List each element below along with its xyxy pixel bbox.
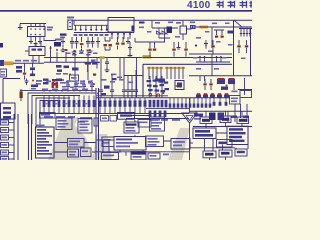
- small box bottom x148: [148, 153, 160, 159]
- center bus double: [96, 95, 168, 97]
- box U12: [78, 119, 92, 134]
- resistor RM5: [119, 98, 121, 101]
- wire top of U1: [20, 24, 46, 28]
- diode D2: [162, 28, 167, 38]
- resistor RS3: [157, 100, 160, 108]
- nested corner wires: [28, 93, 96, 127]
- comp small x228: [228, 31, 234, 34]
- wire E down: [135, 38, 170, 42]
- ground at U1 left: [18, 28, 23, 30]
- cap C60: [25, 79, 29, 86]
- cap C50 brown base: [212, 40, 214, 45]
- cap pair C31 brown: [214, 30, 224, 35]
- right lower bus: [189, 110, 252, 112]
- resistor RS2: [153, 100, 156, 108]
- resistor RR6: [189, 98, 191, 104]
- amp triangle: [182, 113, 197, 123]
- U10 label above: [37, 125, 45, 127]
- resistor RN7: [73, 96, 75, 101]
- tuner pin comb A: [148, 69, 150, 79]
- ground G2: [34, 44, 38, 46]
- cap drop C100: [75, 25, 77, 29]
- cap pair C51 C52 brown: [239, 40, 247, 45]
- bottom box BB3: [235, 149, 247, 156]
- comp BR1: [194, 114, 203, 117]
- left edge mark: [0, 43, 3, 48]
- cap C47: [177, 42, 181, 49]
- U10 pin label rows: [37, 129, 46, 131]
- svg-text:4100: 4100: [187, 0, 211, 11]
- wire right bus: [196, 26, 253, 28]
- bus drop wire: [74, 20, 108, 25]
- U1 top pins: [31, 24, 44, 27]
- mid bus wire: [44, 57, 143, 59]
- resistor RRb2: [219, 98, 221, 102]
- right low bus: [189, 75, 252, 77]
- wire center box down: [125, 119, 127, 124]
- comp LN1: [31, 85, 38, 88]
- scattered labels top band: [46, 81, 51, 83]
- red dot LM4: [62, 79, 64, 81]
- connector pin P4: [1, 143, 9, 148]
- vert bus x18: [17, 114, 19, 160]
- resistor RR5: [185, 98, 187, 104]
- cap drop C103: [90, 25, 92, 29]
- resistor RM7: [129, 98, 131, 101]
- fuse F2 orange-tan: [5, 62, 14, 65]
- box above U10: [40, 113, 56, 119]
- left comb inner labels: [45, 103, 48, 104]
- box DB3: [237, 117, 249, 124]
- J1 label: [67, 17, 74, 19]
- labels row LJ: [15, 60, 21, 62]
- dense cluster right verticals: [150, 76, 162, 98]
- ground G1: [29, 42, 33, 44]
- tuner pin comb B: [166, 69, 168, 79]
- cap drop C101: [80, 25, 82, 29]
- fuse F1 orange: [200, 26, 209, 29]
- electrolytic CE1 brown: [20, 92, 23, 99]
- cap C28 brown tip: [117, 37, 119, 42]
- right tall wires: [234, 20, 251, 76]
- vert x50: [50, 46, 52, 62]
- U4 wire up: [25, 42, 41, 63]
- resistor RN5: [63, 96, 65, 101]
- cap C42: [105, 58, 109, 69]
- cap pair C22 C23: [70, 37, 79, 49]
- resistor RN1: [43, 96, 45, 101]
- resistor RRb1: [213, 98, 215, 102]
- resistor RN10: [88, 96, 90, 101]
- U3 pin 1: [240, 29, 242, 37]
- right edge wires: [238, 78, 252, 95]
- cap drop C106: [106, 25, 108, 29]
- cluster LM parts: [56, 65, 62, 68]
- wire x120 vert: [119, 58, 121, 81]
- resistor RN2: [48, 96, 50, 101]
- left edge mark 2: [0, 60, 4, 66]
- horizontal y75.5 to tuner: [124, 75, 143, 77]
- mid bus extend: [143, 57, 232, 59]
- box U4 outline: [29, 47, 45, 56]
- Q1 pins: [183, 20, 192, 40]
- left edge box 3: [0, 69, 7, 77]
- small marks right: [231, 116, 237, 118]
- junction dot: [195, 44, 197, 46]
- center bus: [96, 97, 230, 99]
- small dark comp x104: [104, 86, 110, 89]
- connector pin P5: [1, 150, 9, 155]
- U2 pin block right: [132, 26, 135, 32]
- box WB2: [217, 140, 233, 148]
- connector J1: [68, 20, 72, 30]
- connector pin P6: [1, 157, 9, 162]
- center box with text: [118, 113, 135, 120]
- bottom bus: [96, 152, 189, 156]
- resistor RM9: [139, 98, 141, 101]
- vert bus x14: [13, 114, 15, 160]
- resistor RT2: [154, 111, 157, 118]
- U3 pin 3: [246, 29, 248, 37]
- box MB2 dark header: [131, 152, 146, 161]
- blue blob near CQ2: [91, 60, 96, 63]
- sheet border rule: [0, 10, 252, 12]
- dark comp right of U4: [54, 42, 61, 47]
- resistor RR3: [177, 98, 179, 104]
- left band lower labels: [44, 116, 53, 118]
- cap C41: [95, 58, 99, 69]
- resistor RM3: [109, 98, 111, 101]
- resistor RR10: [205, 98, 207, 104]
- bus junction dots: [43, 90, 45, 92]
- big IC U10 box: [36, 127, 55, 158]
- resistor RN9: [83, 96, 85, 101]
- resistor RT1: [149, 111, 152, 118]
- comp R10: [16, 66, 22, 69]
- bottom wires: [96, 116, 171, 153]
- comp RB1 red top: [217, 79, 225, 84]
- resistor RT4: [164, 111, 167, 118]
- labels strip x63-96: [64, 82, 69, 84]
- dense cluster blue rects: [147, 80, 152, 82]
- wire drop x212: [211, 27, 213, 48]
- IC U2 outline: [108, 18, 134, 33]
- center lower bus: [96, 113, 189, 115]
- box MA4: [146, 136, 164, 147]
- long verticals to bus: [101, 58, 136, 91]
- ground G3: [38, 42, 42, 44]
- box U5 small: [70, 75, 79, 81]
- vert drops to bus2: [57, 52, 88, 62]
- resistor RR9: [201, 98, 203, 104]
- red topped comps on bus: [196, 95, 201, 98]
- title hanzi 3: [240, 1, 247, 8]
- wire x75 vert: [74, 62, 76, 80]
- white box WB1: [171, 139, 190, 150]
- cluster Q bus: [196, 61, 230, 63]
- wire U1 to right: [44, 38, 56, 41]
- dense cluster red marks: [149, 94, 152, 97]
- resistor RT3: [159, 111, 162, 118]
- box DB2: [220, 116, 231, 123]
- electrolytic CQ2 brown: [85, 63, 92, 72]
- speckle labels right mid: [193, 57, 198, 59]
- cap C32: [204, 40, 208, 49]
- resistor RS5: [165, 100, 168, 108]
- cap pair C54: [217, 56, 222, 62]
- component CN2: [190, 25, 196, 29]
- watermark band mid: [92, 134, 112, 160]
- comp column x32: [32, 63, 34, 67]
- watermark band left: [48, 117, 78, 160]
- wire bus E: [152, 20, 178, 28]
- resistor RR11: [209, 98, 211, 104]
- right mid bus y54: [189, 53, 232, 55]
- wire LJ bus: [13, 62, 44, 64]
- label of C106: [105, 34, 109, 36]
- cap C30: [126, 37, 130, 43]
- left box with pins: [1, 103, 16, 119]
- box small white x138: [138, 120, 151, 128]
- resistor RN8: [78, 96, 80, 101]
- bottom box BB1: [203, 151, 216, 158]
- label of C103: [89, 34, 93, 36]
- resistor RM1: [99, 98, 101, 101]
- cap C40 red: [24, 63, 26, 72]
- resistor RR7: [193, 98, 195, 104]
- resistor RM10: [144, 98, 146, 101]
- IC U3 pin comb top-right: [239, 28, 252, 30]
- connector pin P1: [1, 120, 9, 125]
- cap drop C102: [85, 25, 87, 29]
- wire x137 vert: [136, 58, 138, 98]
- red electrolytics pair: [52, 82, 55, 88]
- olive label tag: [143, 55, 152, 58]
- comp MC5 dark: [175, 81, 184, 90]
- labels above verticals: [102, 79, 107, 81]
- GND label cluster: [60, 34, 67, 36]
- labels under cap row: [66, 53, 71, 55]
- resistor RM4: [114, 98, 116, 101]
- jumper W1: [139, 22, 145, 24]
- U2 bottom pins: [111, 32, 113, 39]
- diode D1: [157, 28, 162, 38]
- resistor RR8: [197, 98, 199, 104]
- cap C21 with ground: [61, 37, 65, 48]
- cap C45 brown: [154, 42, 156, 48]
- comp pair below bus: [200, 76, 205, 81]
- cap C46 brown: [173, 42, 175, 48]
- U4 inner marks: [32, 49, 37, 51]
- label of C101: [79, 34, 83, 36]
- box right of U10 a: [68, 139, 85, 148]
- resistor RS1: [149, 100, 152, 108]
- labels LL: [36, 80, 42, 82]
- comp MR2: [233, 82, 235, 90]
- labels near x115 y74: [111, 74, 117, 76]
- drop bottom bus: [74, 32, 134, 34]
- box MA1: [124, 122, 139, 133]
- connector pin P3: [1, 135, 9, 140]
- resistor RM8: [134, 98, 136, 101]
- title hanzi 2: [228, 1, 235, 8]
- cap C29 brown tip: [122, 37, 124, 42]
- resistor RRb3: [225, 98, 227, 102]
- IC box U21: [227, 126, 248, 144]
- title hanzi 1: [217, 1, 224, 8]
- resistor RN11: [93, 96, 95, 101]
- ground G4: [72, 50, 77, 54]
- bus mid right: [146, 108, 189, 110]
- comp RB2 red top: [228, 79, 235, 84]
- resistor RR1: [169, 98, 171, 104]
- resistor RS4: [161, 100, 164, 108]
- comp cluster LN3 red: [52, 79, 58, 81]
- left band bus: [20, 90, 96, 92]
- box right white: [230, 96, 241, 105]
- resistor RN6: [68, 96, 70, 101]
- wire diag to IC pins: [234, 20, 243, 27]
- bottom box BB2: [219, 150, 232, 157]
- box U11: [56, 118, 72, 130]
- top bus wire: [72, 19, 252, 21]
- label near U1 right: [55, 39, 62, 41]
- cap C48 brown: [185, 42, 187, 48]
- label of C100: [74, 34, 78, 36]
- label of C105: [100, 34, 104, 36]
- bus y118 center: [126, 118, 189, 120]
- olive label tag 2: [100, 56, 105, 59]
- tuner label: [155, 79, 165, 82]
- resistor RM2: [104, 98, 106, 101]
- red tips on cap row: [56, 49, 58, 51]
- cap drop C105: [101, 25, 103, 29]
- crystal X1 with brown pads: [105, 37, 110, 41]
- U3 pin 4: [249, 29, 251, 37]
- resistor RR2: [173, 98, 175, 104]
- comp LM2: [72, 68, 79, 71]
- cap C44 brown: [149, 42, 151, 48]
- cap pair C53: [200, 56, 205, 62]
- audio box U20: [193, 128, 216, 139]
- wires around U10: [54, 122, 96, 152]
- U3 pin 2: [243, 29, 245, 37]
- label bottom x163: [163, 154, 169, 156]
- cap C24 red tip: [81, 37, 83, 42]
- IC U1 outline: [28, 27, 46, 37]
- left band lower bus: [40, 113, 96, 115]
- wire big-box corner: [3, 79, 20, 104]
- boxed labels under bus: [101, 116, 109, 122]
- U1 bottom pins: [31, 37, 40, 42]
- cap pair C25 C26: [86, 37, 95, 48]
- connector pin P2: [1, 128, 9, 133]
- vert pair x96: [96, 88, 99, 160]
- box MB1: [102, 153, 119, 160]
- labels under comb: [150, 119, 158, 121]
- box MA2: [150, 117, 165, 131]
- watermark band right: [168, 128, 190, 160]
- box right of U10 c: [81, 148, 92, 157]
- cap ends row x66-94: [66, 80, 70, 91]
- relay K1 body: [167, 27, 173, 34]
- tuner box outline: [143, 64, 232, 97]
- wire x212b vert: [211, 54, 213, 76]
- right wires down: [228, 104, 247, 122]
- cap drop C104: [95, 25, 97, 29]
- speckle labels top right band: [139, 27, 144, 29]
- box right of U10 b: [68, 149, 79, 157]
- box MA3 center: [114, 137, 146, 151]
- cap symbols at vertical ends: [99, 90, 103, 98]
- left band labels: [42, 89, 48, 91]
- U1 inner marks: [30, 28, 32, 30]
- box DB1: [200, 117, 212, 124]
- thick vert bus x30: [29, 114, 32, 160]
- U1 label: [47, 27, 53, 29]
- box U13 edge: [94, 118, 98, 126]
- label of C104: [94, 34, 98, 36]
- title hanzi 4 clipped: [250, 1, 253, 8]
- comp BR2 pair: [209, 113, 216, 121]
- cluster LM3: [85, 62, 91, 65]
- box MA5 small: [102, 137, 114, 147]
- red dot LL: [32, 80, 34, 82]
- cluster F box Q1: [180, 26, 187, 34]
- wire Q2 down: [87, 70, 89, 81]
- box MRB: [240, 91, 252, 98]
- cap C27: [96, 37, 100, 48]
- caps above tuner: [128, 42, 132, 54]
- watermark band left2: [61, 124, 94, 160]
- left small cluster red: [97, 93, 99, 95]
- resistor RM6: [124, 98, 126, 101]
- resistor RN3: [53, 96, 55, 101]
- mid bus 2: [44, 61, 100, 63]
- ground G5: [88, 49, 93, 53]
- comp cluster LN2 red dot: [43, 79, 49, 81]
- cap pair CE2 brown: [205, 79, 211, 83]
- label of C102: [84, 34, 88, 36]
- label F: [176, 22, 181, 24]
- resistor RR4: [181, 98, 183, 104]
- comp MR1: [221, 87, 228, 90]
- bottom right wires: [189, 111, 252, 160]
- resistor RN4: [58, 96, 60, 101]
- J1 pin marks: [69, 22, 71, 24]
- comp R11: [16, 70, 22, 73]
